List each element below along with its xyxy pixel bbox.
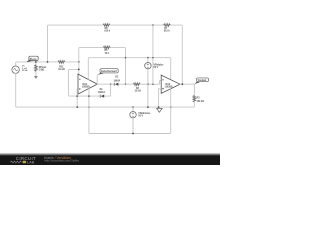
svg-text:910 k: 910 k: [164, 30, 170, 33]
wire supply rail y=57.7 with op-amp V+ pins: [88, 58, 170, 80]
svg-text:100 kΩ: 100 kΩ: [197, 101, 204, 103]
svg-text:1 MΩ: 1 MΩ: [39, 70, 45, 72]
wire input y=61.9: [16, 62, 79, 66]
diode D1: [100, 95, 104, 98]
svg-text:http://circuitlab.com/7q6kv: http://circuitlab.com/7q6kv: [44, 158, 79, 162]
svg-text:10 k: 10 k: [105, 52, 110, 55]
wire output OA1 y=84.2: [97, 81, 161, 85]
svg-text:LM358: LM358: [165, 85, 173, 88]
net flag Piezo: [26, 56, 38, 62]
wire V1 bottom to ground rail: [16, 73, 194, 107]
voltage source VRefplus (DC): [147, 58, 149, 107]
resistor R1 (input): [58, 61, 65, 64]
net flag Voutput: [194, 78, 208, 84]
ground under RPmax: [34, 77, 37, 79]
wire flag to OA1 output apex: [96, 75, 98, 84]
node dot W1 left drop on input wire: [47, 61, 49, 63]
voltage source VRefminus (DC): [132, 107, 134, 133]
wire OA1 plus input drop to ground rail: [76, 89, 78, 107]
node dot at vertical/input wire: [78, 61, 80, 63]
svg-text:10 kΩ: 10 kΩ: [135, 90, 141, 93]
voltage source V1 (AC): [12, 66, 19, 73]
svg-text:91 kΩ: 91 kΩ: [58, 68, 64, 71]
svg-text:910 k: 910 k: [104, 30, 110, 33]
svg-text:Zwischenwert: Zwischenwert: [101, 70, 117, 73]
op-amp OA2: [161, 75, 180, 93]
resistor R6 (top-left, y=25): [103, 24, 110, 27]
svg-text:Piezo: Piezo: [30, 57, 37, 61]
resistor R2: [133, 83, 140, 86]
resistor RPmax (vertical): [35, 62, 37, 65]
resistor R7 (top-right, y=25): [164, 24, 171, 27]
svg-text:50 V: 50 V: [138, 114, 143, 117]
wire tap vertical x=152.9: [152, 25, 154, 84]
node dot tap on W1: [152, 24, 154, 26]
net flag Zwischenwert: [97, 69, 118, 75]
resistor R3 (vertical, output load): [193, 84, 195, 95]
svg-text:50 Hz: 50 Hz: [22, 70, 28, 72]
wire D1 bottom branch y=96.1: [78, 84, 111, 96]
svg-text:1N914: 1N914: [114, 79, 121, 82]
svg-text:Voutput: Voutput: [198, 79, 207, 82]
diode D2: [114, 83, 118, 86]
wire ground rail y=107.1 dots: [88, 106, 90, 108]
resistor R5 (loop2): [103, 46, 110, 49]
node dot VRefplus bottom on output wire: [147, 83, 149, 85]
svg-text:50 V: 50 V: [154, 66, 159, 69]
wire OA2 output y=84.2: [180, 83, 194, 85]
ground symbol right: [157, 108, 163, 112]
footer logo CIRCUIT LAB: [10, 156, 36, 164]
svg-text:1N914: 1N914: [98, 91, 106, 94]
node dot D-branch on output wire: [110, 83, 112, 85]
node dot tap vertical end on output wire: [152, 83, 154, 85]
wire OA2 lower input to ground wire: [159, 89, 161, 107]
op-amp OA1: [78, 74, 97, 94]
wire loop2 y=47.4: [79, 47, 126, 84]
wire op-amp V- rail (rail2): [89, 89, 171, 134]
wire W1 top feedback rail y=25: [48, 25, 183, 84]
svg-text:LAB: LAB: [27, 160, 35, 164]
wire wrap-around node x=68.5: [69, 69, 79, 96]
